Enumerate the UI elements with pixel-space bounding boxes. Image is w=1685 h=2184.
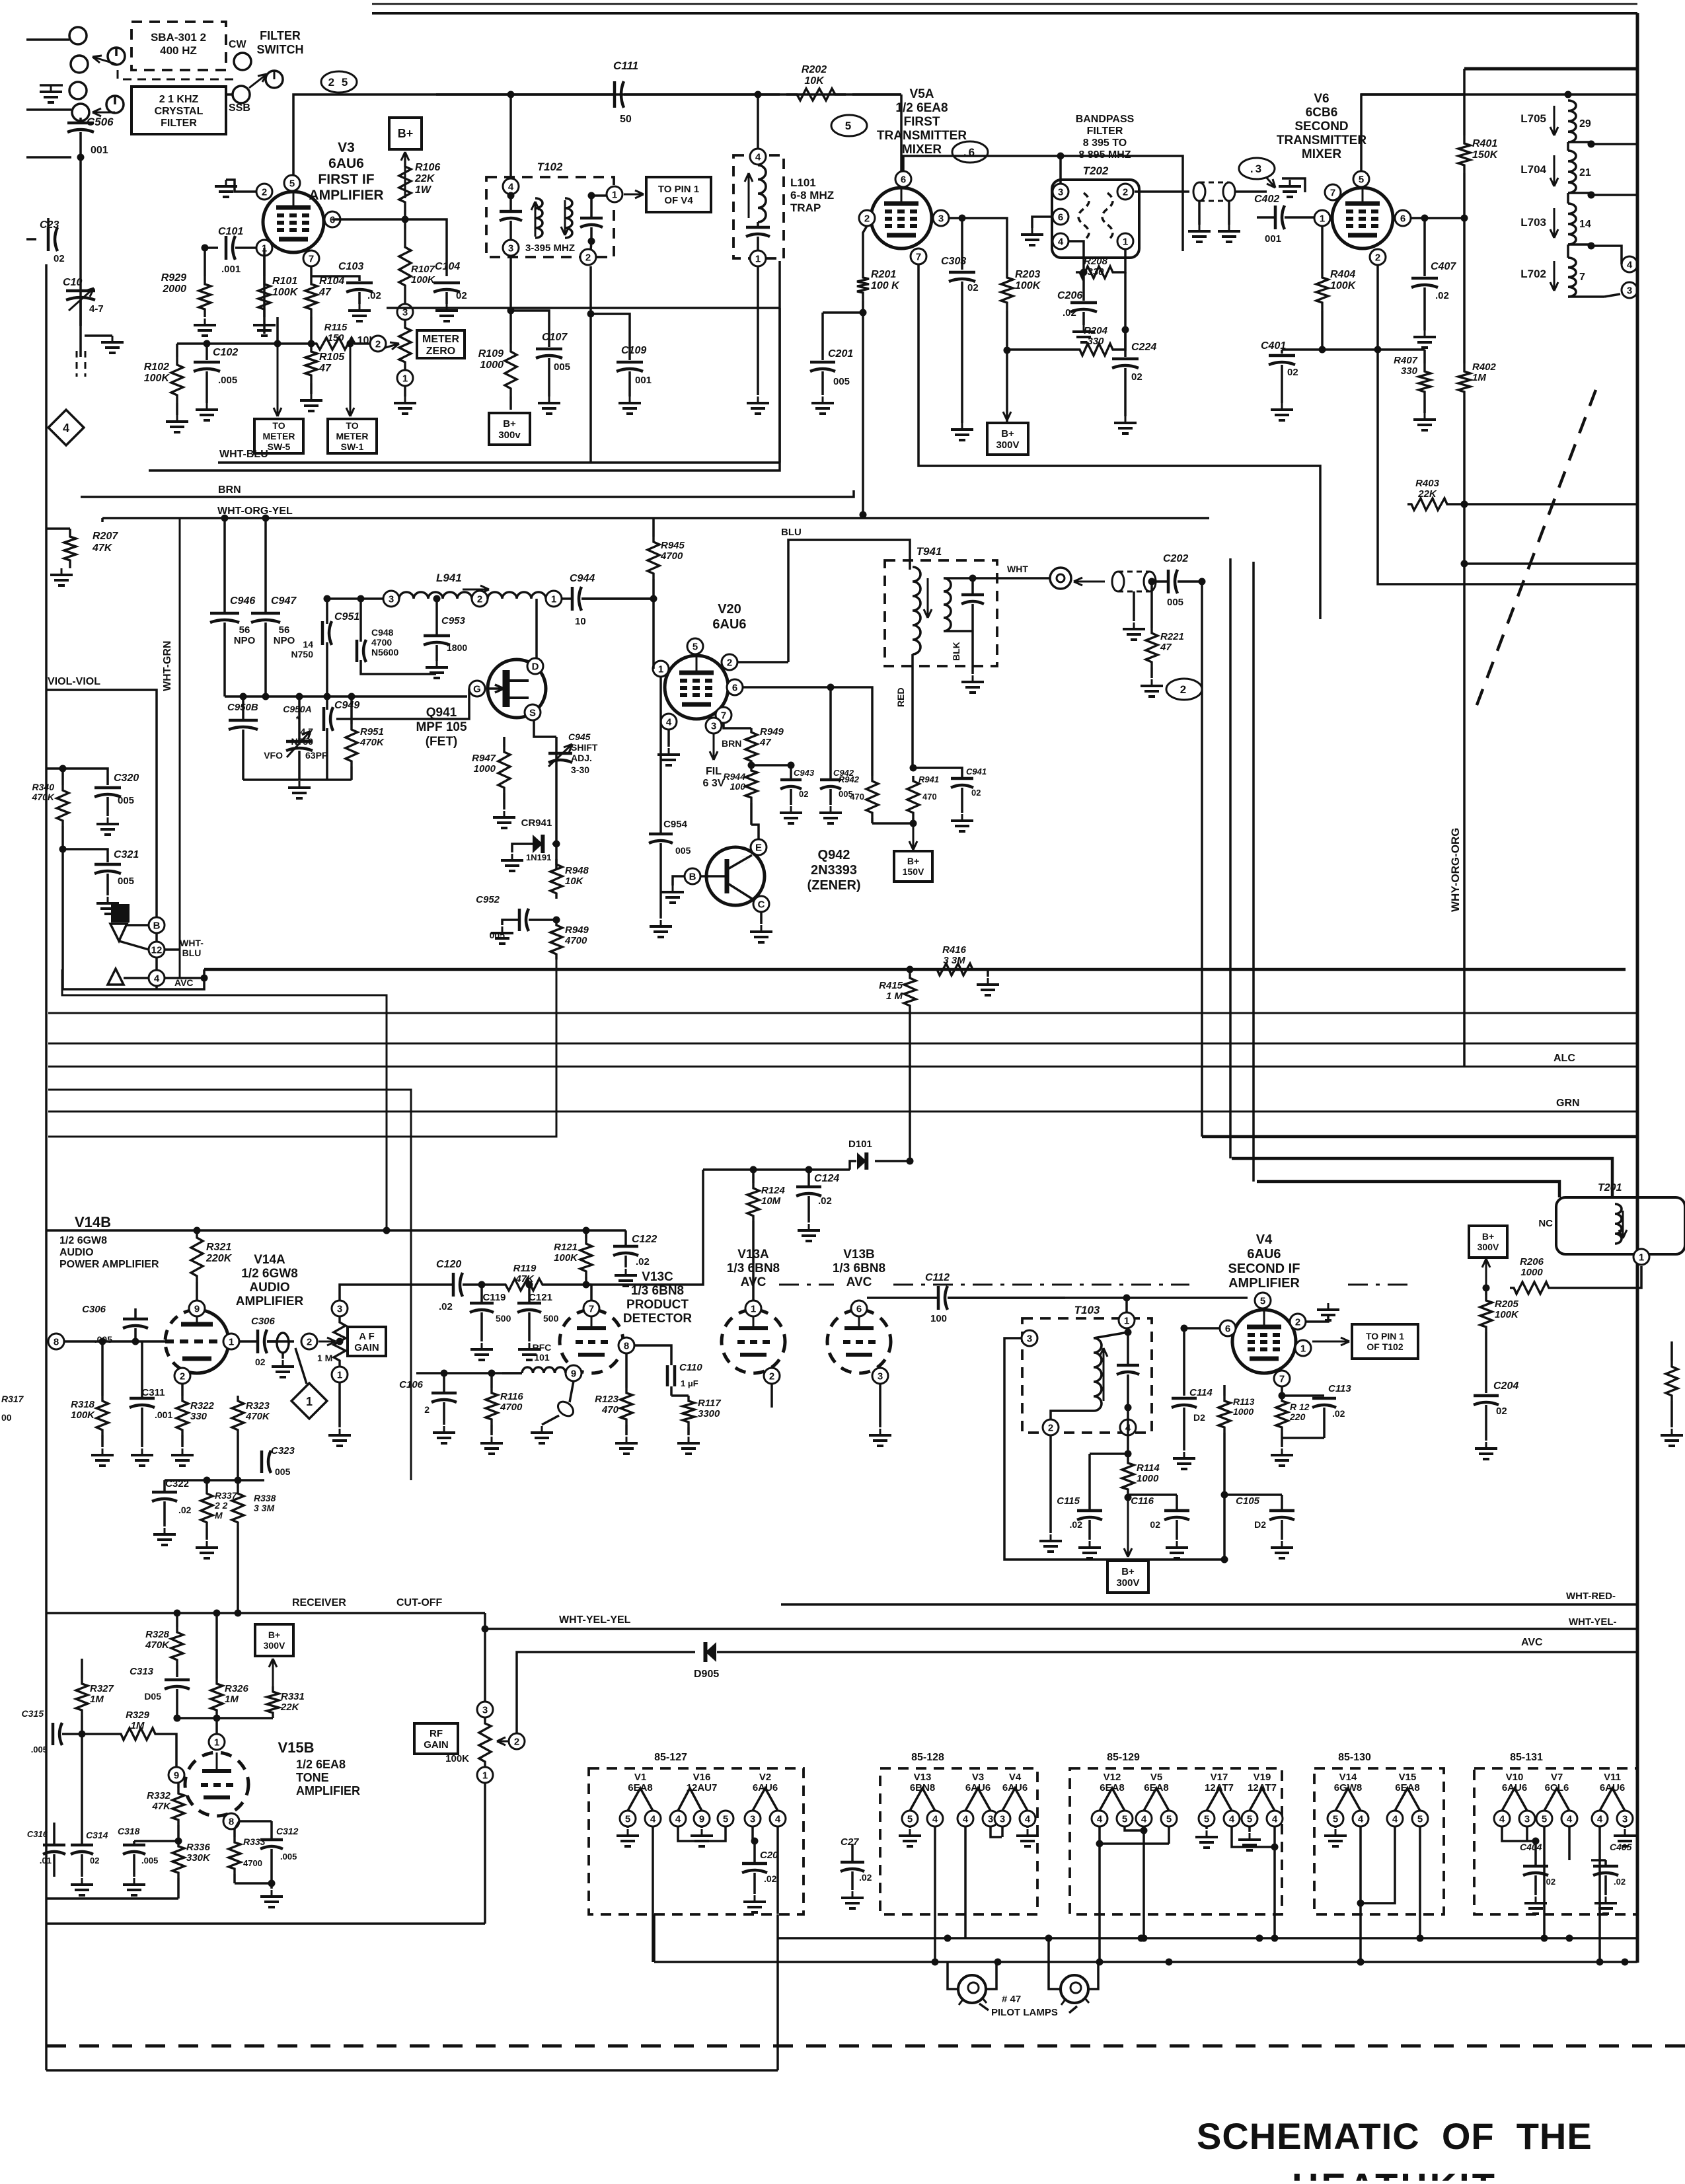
svg-text:.001: .001	[155, 1410, 172, 1420]
svg-text:4: 4	[1567, 1813, 1573, 1825]
svg-text:NPO: NPO	[234, 635, 256, 646]
heater V17	[1195, 1772, 1275, 1848]
svg-text:300V: 300V	[1116, 1577, 1139, 1589]
svg-text:7: 7	[1579, 272, 1585, 283]
pin V20-6	[727, 679, 743, 695]
wire T941 pri down	[911, 654, 914, 768]
dashed diagonal right	[1474, 390, 1596, 714]
wire right stubs	[1588, 141, 1638, 199]
label V3	[309, 140, 383, 203]
svg-text:47: 47	[318, 363, 332, 374]
pin V4-6	[1220, 1320, 1236, 1336]
svg-text:AUDIO: AUDIO	[59, 1247, 94, 1258]
svg-text:C407: C407	[1431, 261, 1456, 272]
svg-text:C316: C316	[27, 1829, 48, 1839]
svg-text:T941: T941	[917, 545, 942, 558]
wire avc thick	[204, 968, 1626, 971]
svg-text:.005: .005	[141, 1856, 158, 1865]
capacitor C316	[0, 0, 1, 1]
wire v4-7 down	[1279, 1386, 1286, 1400]
resistor R115	[274, 322, 371, 350]
svg-text:2 5: 2 5	[328, 76, 350, 89]
box 2.1KHZ crystal filter	[131, 87, 226, 134]
svg-text:NPO: NPO	[274, 635, 295, 646]
svg-text:9: 9	[194, 1303, 200, 1314]
wire receiver cutoff vert	[0, 0, 1, 1]
capacitor C321	[63, 849, 139, 914]
svg-text:C401: C401	[1261, 340, 1286, 352]
svg-text:02: 02	[1150, 1519, 1160, 1530]
svg-text:TRANSMITTER: TRANSMITTER	[877, 129, 967, 143]
svg-text:TRAP: TRAP	[790, 202, 821, 214]
tube V4	[1232, 1310, 1296, 1373]
svg-text:5: 5	[1359, 174, 1364, 185]
resistor R318	[71, 1338, 114, 1466]
svg-text:C206: C206	[1057, 290, 1082, 301]
svg-text:SCHEMATIC OF THE: SCHEMATIC OF THE	[1197, 2115, 1592, 2157]
svg-text:SWITCH: SWITCH	[257, 43, 304, 56]
svg-text:330: 330	[1087, 266, 1104, 278]
svg-text:C943: C943	[794, 768, 815, 778]
svg-text:.02: .02	[636, 1256, 650, 1267]
resistor R407	[1394, 350, 1436, 430]
wire t103 pin4 down	[1125, 1437, 1132, 1458]
ground switch	[40, 85, 63, 102]
pot RF GAIN	[445, 1717, 522, 1767]
svg-text:C952: C952	[476, 894, 500, 905]
resistor R333	[0, 0, 1, 1]
pin V20-4	[661, 714, 677, 730]
svg-text:.005: .005	[280, 1852, 297, 1862]
svg-text:C950A: C950A	[283, 704, 312, 714]
pin V15B-1	[0, 0, 1, 1]
wire C101 left	[202, 245, 209, 277]
svg-text:A F: A F	[359, 1331, 375, 1342]
svg-text:C306: C306	[82, 1304, 106, 1315]
resistor R944	[724, 762, 757, 825]
capacitor C306	[82, 1304, 148, 1345]
label title	[1197, 2115, 1592, 2157]
pin V20-1	[653, 661, 669, 677]
label VIOL-VIOL	[48, 676, 100, 687]
label WHT-YEL-YEL	[559, 1614, 631, 1626]
relay black square	[111, 904, 130, 923]
wire v15 bottom bus	[46, 1897, 178, 1900]
svg-text:2 2: 2 2	[214, 1500, 228, 1511]
svg-text:.02: .02	[1435, 290, 1449, 301]
pin T103-3	[1022, 1330, 1037, 1346]
label V6	[1277, 92, 1367, 161]
svg-text:4: 4	[1597, 1813, 1603, 1825]
svg-text:47: 47	[318, 287, 332, 298]
pin V14A-1	[223, 1334, 239, 1349]
wire v13c-9 key	[531, 1381, 576, 1443]
coil T941 secondary	[944, 578, 951, 631]
wire V3 pin7 down	[310, 266, 313, 276]
svg-text:C951: C951	[334, 611, 359, 622]
wire heater bus1	[778, 1935, 1637, 1942]
svg-text:4: 4	[963, 1813, 969, 1825]
svg-text:C320: C320	[114, 772, 139, 784]
wire V20-3 fil	[703, 734, 725, 789]
svg-text:C311: C311	[141, 1387, 165, 1398]
pin L101-1	[750, 250, 766, 266]
wire bus1	[48, 1012, 1637, 1014]
pin V13C-8	[618, 1337, 634, 1353]
svg-text:R942: R942	[839, 774, 860, 784]
wire V20 in	[581, 595, 657, 669]
svg-text:TO: TO	[346, 420, 358, 431]
ground V4-2	[1306, 1303, 1339, 1322]
svg-text:2: 2	[307, 1336, 312, 1347]
svg-text:B+: B+	[1482, 1231, 1494, 1242]
svg-text:L101: L101	[790, 176, 816, 189]
pin T202-6	[1053, 209, 1068, 225]
wire V6-6 right	[1411, 215, 1468, 222]
label BRN V20	[722, 738, 741, 749]
tube V3	[263, 192, 324, 252]
label V13B	[833, 1248, 885, 1289]
svg-text:2: 2	[1180, 683, 1188, 696]
svg-text:330: 330	[1401, 365, 1418, 377]
wire left vert2	[101, 518, 104, 522]
svg-text:(FET): (FET)	[426, 735, 458, 749]
svg-text:L704: L704	[1520, 163, 1546, 176]
wire L101 gnd	[747, 266, 769, 414]
capacitor T102 cap2	[580, 192, 606, 251]
label BLK	[951, 642, 961, 661]
svg-text:1/2 6EA8: 1/2 6EA8	[296, 1758, 346, 1771]
resistor R338	[232, 1480, 276, 1617]
svg-text:R109: R109	[478, 348, 504, 359]
svg-text:001: 001	[635, 375, 652, 386]
wire viol box	[46, 690, 157, 990]
svg-text:V4: V4	[1256, 1232, 1273, 1247]
capacitor C947	[251, 515, 297, 697]
resistor R329	[82, 1710, 176, 1767]
ground T202-6	[1021, 217, 1053, 245]
wire fold dashed line	[779, 1284, 1414, 1286]
svg-text:6: 6	[1058, 211, 1063, 223]
svg-text:1 M: 1 M	[886, 991, 903, 1002]
svg-text:2: 2	[262, 186, 267, 198]
svg-text:1000: 1000	[1233, 1406, 1254, 1417]
svg-text:R203: R203	[1015, 269, 1040, 280]
svg-text:B+: B+	[1001, 428, 1014, 439]
wire V3 pin1 down	[263, 256, 266, 276]
svg-text:V13C: V13C	[642, 1270, 673, 1284]
switch contact S1e	[106, 96, 124, 113]
svg-text:12: 12	[151, 944, 163, 956]
heater V2	[745, 1772, 786, 1914]
svg-text:R338: R338	[254, 1493, 276, 1503]
svg-text:001: 001	[91, 145, 108, 156]
resistor R947b	[472, 737, 515, 828]
svg-text:ADJ.: ADJ.	[571, 753, 592, 763]
svg-text:150K: 150K	[1472, 149, 1499, 161]
switch contact mid	[266, 71, 283, 88]
svg-text:6AU6: 6AU6	[1247, 1247, 1281, 1261]
svg-text:RED: RED	[895, 687, 906, 707]
capacitor C106	[0, 0, 1, 1]
svg-text:(ZENER): (ZENER)	[807, 878, 860, 893]
pin conn B	[149, 917, 165, 933]
wire T941 sec gnd	[961, 631, 984, 693]
heater V15h	[1357, 1772, 1429, 1942]
svg-text:C953: C953	[441, 615, 466, 626]
wire page top line2	[372, 12, 1637, 15]
wire c322 r337 bus	[165, 1477, 264, 1484]
svg-text:4: 4	[650, 1813, 656, 1825]
svg-text:C101: C101	[218, 226, 243, 237]
svg-text:V11: V11	[1604, 1772, 1621, 1783]
label V13C	[623, 1270, 692, 1326]
wire bus3	[48, 1066, 1637, 1068]
svg-text:R317: R317	[1, 1394, 24, 1404]
svg-text:470: 470	[850, 792, 864, 802]
pin V6-2	[1370, 249, 1386, 265]
capacitor C120	[416, 1259, 502, 1312]
svg-text:02: 02	[54, 253, 65, 264]
pin pot3	[397, 304, 413, 320]
capacitor C316b	[27, 1823, 65, 1877]
tube V13A	[722, 1310, 785, 1373]
svg-text:2: 2	[864, 213, 870, 224]
pin V13B-6	[851, 1300, 867, 1316]
svg-text:C107: C107	[542, 332, 568, 343]
svg-text:02: 02	[967, 282, 979, 293]
svg-text:470: 470	[922, 792, 937, 802]
svg-text:SW-1: SW-1	[341, 441, 364, 452]
capacitor C204	[1474, 1380, 1518, 1459]
svg-text:3: 3	[750, 1813, 755, 1825]
svg-text:4: 4	[1272, 1813, 1278, 1825]
ground vfo mid	[243, 780, 352, 798]
label C942 val	[0, 0, 1, 1]
svg-text:2: 2	[375, 338, 381, 350]
wire C320 node	[46, 765, 108, 786]
svg-text:6CB6: 6CB6	[1306, 106, 1338, 120]
capacitor C111	[436, 59, 780, 125]
resistor R102	[144, 344, 188, 432]
svg-text:V17: V17	[1211, 1772, 1228, 1783]
svg-text:8: 8	[54, 1336, 59, 1347]
label pilot lamps	[979, 1994, 1077, 2018]
svg-text:1M: 1M	[1472, 372, 1486, 383]
capacitor C506	[67, 116, 114, 157]
svg-text:D: D	[532, 661, 539, 672]
svg-text:R119: R119	[513, 1263, 537, 1274]
box RF GAIN	[414, 1723, 458, 1754]
svg-text:5: 5	[1260, 1295, 1265, 1306]
svg-text:100K: 100K	[554, 1252, 578, 1263]
pin T202-1	[1117, 233, 1133, 249]
wire v14 top	[46, 1227, 626, 1234]
switch contact S1d	[69, 82, 87, 99]
wire r114 down	[1124, 1497, 1132, 1557]
svg-text:2000: 2000	[162, 283, 186, 295]
svg-text:B+: B+	[398, 127, 414, 140]
junction dot .001 node	[77, 154, 85, 161]
svg-text:.005: .005	[218, 375, 237, 386]
callout .3	[1239, 158, 1275, 188]
capacitor C311	[130, 1341, 172, 1466]
svg-text:R336: R336	[186, 1842, 211, 1853]
capacitor C313	[130, 1666, 190, 1722]
wire B+ down	[401, 152, 409, 198]
resistor R105	[300, 317, 345, 411]
svg-text:C204: C204	[1493, 1380, 1518, 1392]
pin V3-6	[324, 211, 340, 227]
coil L704	[1520, 142, 1594, 199]
svg-text:3: 3	[1627, 285, 1632, 296]
svg-text:3: 3	[938, 213, 944, 224]
svg-text:V2: V2	[759, 1772, 771, 1783]
svg-text:R323: R323	[246, 1400, 270, 1412]
svg-text:C402: C402	[1254, 194, 1279, 205]
resistor R119	[502, 1263, 591, 1291]
resistor R205	[1480, 1288, 1519, 1393]
pin Q942-E	[751, 839, 767, 855]
svg-text:R322: R322	[190, 1400, 215, 1412]
svg-text:C104: C104	[435, 261, 460, 272]
transistor Q941	[488, 659, 546, 718]
svg-text:300v: 300v	[498, 430, 521, 441]
svg-text:R204: R204	[1084, 325, 1108, 336]
resistor R951	[346, 693, 385, 780]
pot AF GAIN	[267, 1285, 416, 1384]
svg-text:5: 5	[693, 641, 698, 652]
svg-text:6: 6	[732, 682, 737, 693]
svg-text:.02: .02	[178, 1505, 192, 1515]
svg-text:V3: V3	[972, 1772, 984, 1783]
tube V20	[665, 656, 728, 719]
svg-text:R202: R202	[802, 64, 827, 75]
wire v14 cathode bus	[0, 0, 1, 1]
resistor R941	[872, 774, 939, 827]
resistor R332	[147, 1783, 184, 1845]
capacitor C122	[613, 1230, 657, 1286]
svg-text:1: 1	[214, 1737, 219, 1748]
svg-text:1: 1	[482, 1770, 488, 1781]
capacitor C951	[0, 0, 1, 1]
heater V1	[617, 1772, 661, 1962]
ground vfo top	[50, 568, 73, 585]
svg-text:2N3393: 2N3393	[811, 863, 857, 878]
svg-text:1: 1	[1300, 1343, 1306, 1354]
pin V20-5	[687, 638, 703, 654]
svg-text:4-7: 4-7	[89, 303, 104, 315]
pin V4-7	[1274, 1371, 1290, 1386]
svg-text:C941: C941	[966, 767, 987, 776]
pin conn 12	[119, 941, 165, 958]
svg-text:C20: C20	[760, 1850, 778, 1861]
capacitor C103	[311, 261, 381, 321]
svg-text:47K: 47K	[92, 543, 113, 554]
label CW	[229, 39, 247, 50]
capacitor C10	[63, 277, 104, 315]
capacitor C112	[867, 1272, 1065, 1324]
boxed B+ 300V T103	[1107, 1561, 1148, 1593]
svg-text:RECEIVER: RECEIVER	[292, 1597, 346, 1608]
svg-text:3 3M: 3 3M	[943, 955, 965, 966]
label GRN	[1556, 1098, 1580, 1109]
svg-text:C27: C27	[841, 1836, 859, 1848]
svg-text:2: 2	[180, 1371, 185, 1382]
svg-text:FIRST: FIRST	[904, 115, 940, 129]
svg-text:100K: 100K	[144, 373, 170, 384]
svg-text:3: 3	[878, 1371, 883, 1382]
svg-text:2: 2	[514, 1736, 519, 1747]
wire V6-5 up	[1361, 94, 1464, 171]
svg-text:V13B: V13B	[843, 1248, 875, 1261]
wire R944 to C943	[0, 0, 1, 1]
svg-text:D05: D05	[144, 1691, 161, 1702]
capacitor T102 cap1	[500, 194, 522, 240]
svg-text:1800: 1800	[447, 642, 467, 653]
pin V15B-1b	[209, 1734, 225, 1750]
svg-text:R947: R947	[472, 753, 496, 764]
wire T941 sec top	[969, 575, 1051, 582]
wire pin4 up	[507, 91, 515, 200]
svg-text:.001: .001	[221, 264, 241, 275]
capacitor C115	[1057, 1454, 1128, 1558]
svg-text:5: 5	[845, 120, 853, 132]
svg-text:.02: .02	[367, 290, 381, 301]
svg-text:C119: C119	[482, 1292, 505, 1303]
capacitor C114	[1172, 1387, 1213, 1469]
svg-text:BLU: BLU	[781, 527, 802, 538]
svg-text:.02: .02	[764, 1873, 777, 1884]
svg-text:C946: C946	[230, 595, 255, 607]
svg-text:DETECTOR: DETECTOR	[623, 1312, 692, 1326]
svg-text:WHY-ORG-ORG: WHY-ORG-ORG	[1449, 828, 1462, 913]
wire v13c plate	[590, 1285, 593, 1300]
svg-text:D101: D101	[848, 1139, 872, 1150]
resistor R114	[1122, 1458, 1160, 1501]
svg-text:1/2 6GW8: 1/2 6GW8	[59, 1235, 107, 1246]
svg-text:R327: R327	[90, 1683, 114, 1694]
svg-text:001: 001	[1265, 233, 1281, 245]
capacitor C105b	[1221, 1491, 1295, 1559]
resistor R415	[879, 969, 916, 1013]
pilot lamp 1	[948, 1962, 996, 2005]
svg-text:1: 1	[612, 189, 617, 200]
svg-text:C945: C945	[568, 732, 591, 742]
svg-text:.02: .02	[1614, 1877, 1626, 1887]
coil L941	[399, 592, 472, 599]
svg-text:.02: .02	[1332, 1408, 1345, 1419]
wire v13c-9 down	[0, 0, 1, 1]
resistor R327	[76, 1659, 114, 1771]
svg-text:47K: 47K	[151, 1801, 171, 1812]
svg-text:5: 5	[1204, 1813, 1209, 1825]
svg-text:.02: .02	[859, 1872, 872, 1883]
wire R203 down to B+	[1003, 311, 1011, 423]
svg-text:C323: C323	[271, 1445, 295, 1456]
svg-text:9: 9	[699, 1813, 704, 1825]
ground C10	[85, 336, 124, 353]
wire L702 bottom	[1568, 295, 1604, 298]
wire left edge vertical	[45, 264, 48, 2070]
svg-text:3: 3	[389, 593, 394, 605]
svg-text:R340: R340	[32, 782, 55, 792]
svg-text:4: 4	[1499, 1813, 1505, 1825]
svg-text:5: 5	[907, 1813, 913, 1825]
ground V20-4	[657, 730, 680, 765]
wire bus4	[48, 1090, 411, 1480]
svg-text:L703: L703	[1520, 216, 1546, 229]
